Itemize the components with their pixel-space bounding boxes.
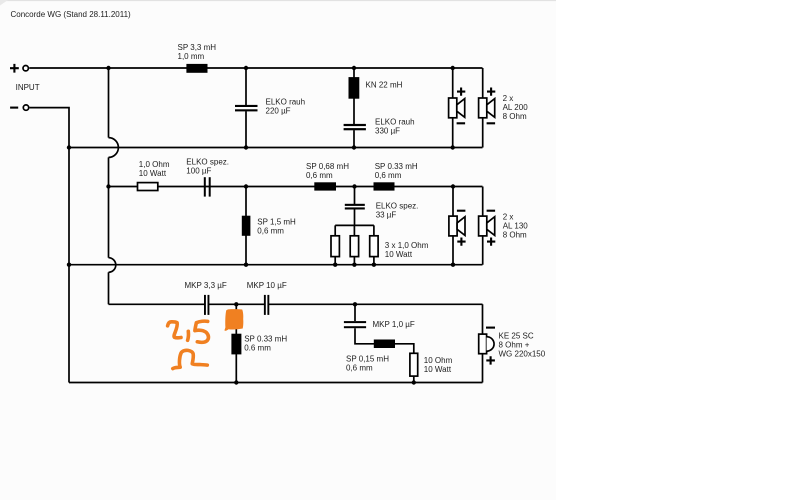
- wire MKP 1,0 shunt branch: [355, 304, 414, 382]
- label 2 x AL 200 8 Ohm: [503, 94, 529, 121]
- wire SP 1,5 mH branch: [245, 187, 247, 265]
- inductor SP 0.33 mH tweeter branch: [231, 334, 241, 355]
- wire middle return rail: [69, 264, 483, 266]
- svg-text:MKP 10 µF: MKP 10 µF: [247, 281, 287, 290]
- svg-text:AL 130: AL 130: [503, 221, 529, 230]
- svg-text:SP 0,68 mH: SP 0,68 mH: [306, 162, 349, 171]
- junction dots upper return rail: [67, 145, 455, 149]
- svg-text:0,6 mm: 0,6 mm: [306, 171, 333, 180]
- wire top feed rail: [29, 67, 482, 69]
- wire main feed vertical lower segment: [108, 272, 110, 304]
- svg-text:8 Ohm: 8 Ohm: [503, 112, 527, 121]
- capacitor ELKO spez. 100 µF: [204, 177, 211, 196]
- annotation orange marker patch 2,5 Ohm resistor: [225, 309, 244, 331]
- tweeter KE 25 SC: [479, 328, 495, 365]
- label ELKO spez. 100 µF: [186, 157, 229, 175]
- inductor KN 22 mH: [349, 77, 360, 99]
- label ELKO spez. 33 µF: [376, 201, 419, 219]
- svg-text:0,6 mm: 0,6 mm: [375, 171, 402, 180]
- wire ELKO spez 33 branch: [354, 187, 356, 226]
- junction dots middle return rail: [67, 263, 455, 267]
- label ELKO rauh 220 µF: [266, 98, 306, 116]
- inductor SP 1,5 mH: [242, 216, 251, 236]
- resistor 1,0 Ohm: [138, 183, 158, 191]
- svg-text:SP 3,3 mH: SP 3,3 mH: [178, 43, 217, 52]
- inductor SP 0,68 mH: [314, 182, 336, 190]
- resistor bank 3 x 1,0 Ohm: [331, 236, 378, 257]
- svg-text:WG 220x150: WG 220x150: [499, 350, 546, 359]
- svg-text:8 Ohm: 8 Ohm: [503, 230, 527, 239]
- inductor SP 3,3 mH: [186, 64, 207, 73]
- wire bottom section right edge: [482, 304, 484, 382]
- junction dots top feed rail: [106, 66, 455, 70]
- wire middle section right edge: [482, 187, 484, 265]
- wire KN 22 mH branch: [353, 68, 355, 148]
- label SP 0,68 mH 0,6 mm: [306, 162, 349, 180]
- svg-text:3 x 1,0 Ohm: 3 x 1,0 Ohm: [385, 241, 429, 250]
- junction dots middle feed rail: [106, 184, 455, 188]
- svg-text:100 µF: 100 µF: [186, 166, 211, 175]
- svg-text:SP 1,5 mH: SP 1,5 mH: [257, 218, 296, 227]
- wire ELKO rauh 220 branch: [245, 68, 247, 148]
- svg-text:33 µF: 33 µF: [376, 210, 397, 219]
- wire middle feed rail: [109, 186, 483, 188]
- wire resistor bank bus: [335, 224, 374, 226]
- svg-text:2 x: 2 x: [503, 94, 514, 103]
- label SP 0.33 mH 0,6 mm: [375, 162, 418, 180]
- junction dots bottom feed rail: [234, 302, 357, 306]
- wire resistor bank legs: [335, 225, 374, 264]
- svg-text:ELKO spez.: ELKO spez.: [376, 201, 419, 210]
- svg-text:Concorde WG (Stand 28.11.2011): Concorde WG (Stand 28.11.2011): [11, 10, 132, 19]
- speaker AL 130 number 2: [479, 211, 496, 246]
- capacitor MKP 3,3 µF: [204, 295, 209, 315]
- junction dots bottom return rail: [234, 380, 416, 384]
- label SP 0.33 mH 0.6 mm: [244, 335, 287, 353]
- capacitor MKP 10 µF: [264, 295, 269, 315]
- annotation handwritten 2,5: [168, 321, 209, 342]
- svg-text:AL 200: AL 200: [503, 103, 529, 112]
- input terminal -: [10, 105, 29, 110]
- svg-text:SP 0.33 mH: SP 0.33 mH: [375, 162, 418, 171]
- svg-text:MKP 3,3 µF: MKP 3,3 µF: [185, 281, 227, 290]
- wire bottom return rail: [69, 382, 483, 384]
- svg-text:330 µF: 330 µF: [375, 126, 400, 135]
- svg-text:KE 25 SC: KE 25 SC: [499, 332, 534, 341]
- label 1,0 Ohm 10 Watt: [139, 160, 170, 178]
- svg-text:0,6 mm: 0,6 mm: [346, 364, 373, 373]
- svg-text:10 Watt: 10 Watt: [139, 169, 167, 178]
- label 3 x 1,0 Ohm 10 Watt: [385, 241, 429, 259]
- label SP 1,5 mH 0,6 mm: [257, 218, 296, 236]
- inductor SP 0.33 mH middle section: [374, 182, 395, 190]
- label SP 0,15 mH 0,6 mm: [346, 355, 389, 373]
- wire bottom feed rail: [109, 303, 483, 305]
- svg-text:0.6 mm: 0.6 mm: [244, 344, 271, 353]
- wire main feed vertical middle segment: [108, 157, 110, 257]
- wire hop over upper return rail: [109, 138, 119, 158]
- inductor SP 0,15 mH: [374, 340, 395, 349]
- svg-text:SP 0,15 mH: SP 0,15 mH: [346, 355, 389, 364]
- svg-text:10 Ohm: 10 Ohm: [424, 356, 453, 365]
- wire negative input to left return bus: [30, 108, 69, 383]
- wire upper return rail: [69, 147, 483, 149]
- label 2 x AL 130 8 Ohm: [503, 212, 529, 239]
- svg-text:2 x: 2 x: [503, 212, 514, 221]
- svg-text:10 Watt: 10 Watt: [424, 365, 452, 374]
- svg-text:10 Watt: 10 Watt: [385, 250, 413, 259]
- svg-text:220 µF: 220 µF: [266, 107, 291, 116]
- label ELKO rauh 330 µF: [375, 117, 415, 135]
- svg-text:ELKO spez.: ELKO spez.: [186, 157, 229, 166]
- label 10 Ohm 10 Watt: [424, 356, 453, 374]
- capacitor MKP 1,0 µF: [344, 321, 366, 328]
- resistor 10 Ohm: [410, 353, 418, 376]
- svg-text:1,0 mm: 1,0 mm: [178, 52, 205, 61]
- annotation handwritten Omega: [173, 350, 208, 368]
- capacitor ELKO rauh 220 µF: [235, 105, 258, 112]
- svg-text:MKP 1,0 µF: MKP 1,0 µF: [373, 320, 415, 329]
- svg-text:ELKO rauh: ELKO rauh: [375, 117, 415, 126]
- svg-text:INPUT: INPUT: [16, 83, 40, 92]
- speaker AL 200 number 1: [449, 88, 466, 124]
- svg-text:8 Ohm +: 8 Ohm +: [499, 341, 530, 350]
- wire top section right edge: [482, 68, 484, 148]
- wire orange marked tweeter series branch: [235, 304, 237, 382]
- capacitor ELKO spez. 33 µF: [345, 204, 365, 210]
- svg-text:SP 0.33 mH: SP 0.33 mH: [244, 335, 287, 344]
- wire AL130 speaker 1 branch: [452, 187, 454, 265]
- wire AL200 speaker 1 branch: [452, 68, 454, 148]
- label KE 25 SC 8 Ohm + WG 220x150: [499, 332, 546, 359]
- svg-text:KN 22 mH: KN 22 mH: [366, 80, 403, 89]
- svg-text:ELKO rauh: ELKO rauh: [266, 98, 306, 107]
- wire main feed vertical upper segment: [108, 68, 110, 138]
- svg-text:1,0 Ohm: 1,0 Ohm: [139, 160, 170, 169]
- speaker AL 200 number 2: [479, 88, 496, 124]
- wire hop over middle return rail: [109, 258, 116, 273]
- speaker AL 130 number 1: [449, 211, 466, 246]
- input terminal +: [10, 64, 28, 73]
- capacitor ELKO rauh 330 µF: [344, 124, 366, 130]
- svg-text:0,6 mm: 0,6 mm: [257, 227, 284, 236]
- label SP 3,3 mH 1,0 mm: [178, 43, 217, 61]
